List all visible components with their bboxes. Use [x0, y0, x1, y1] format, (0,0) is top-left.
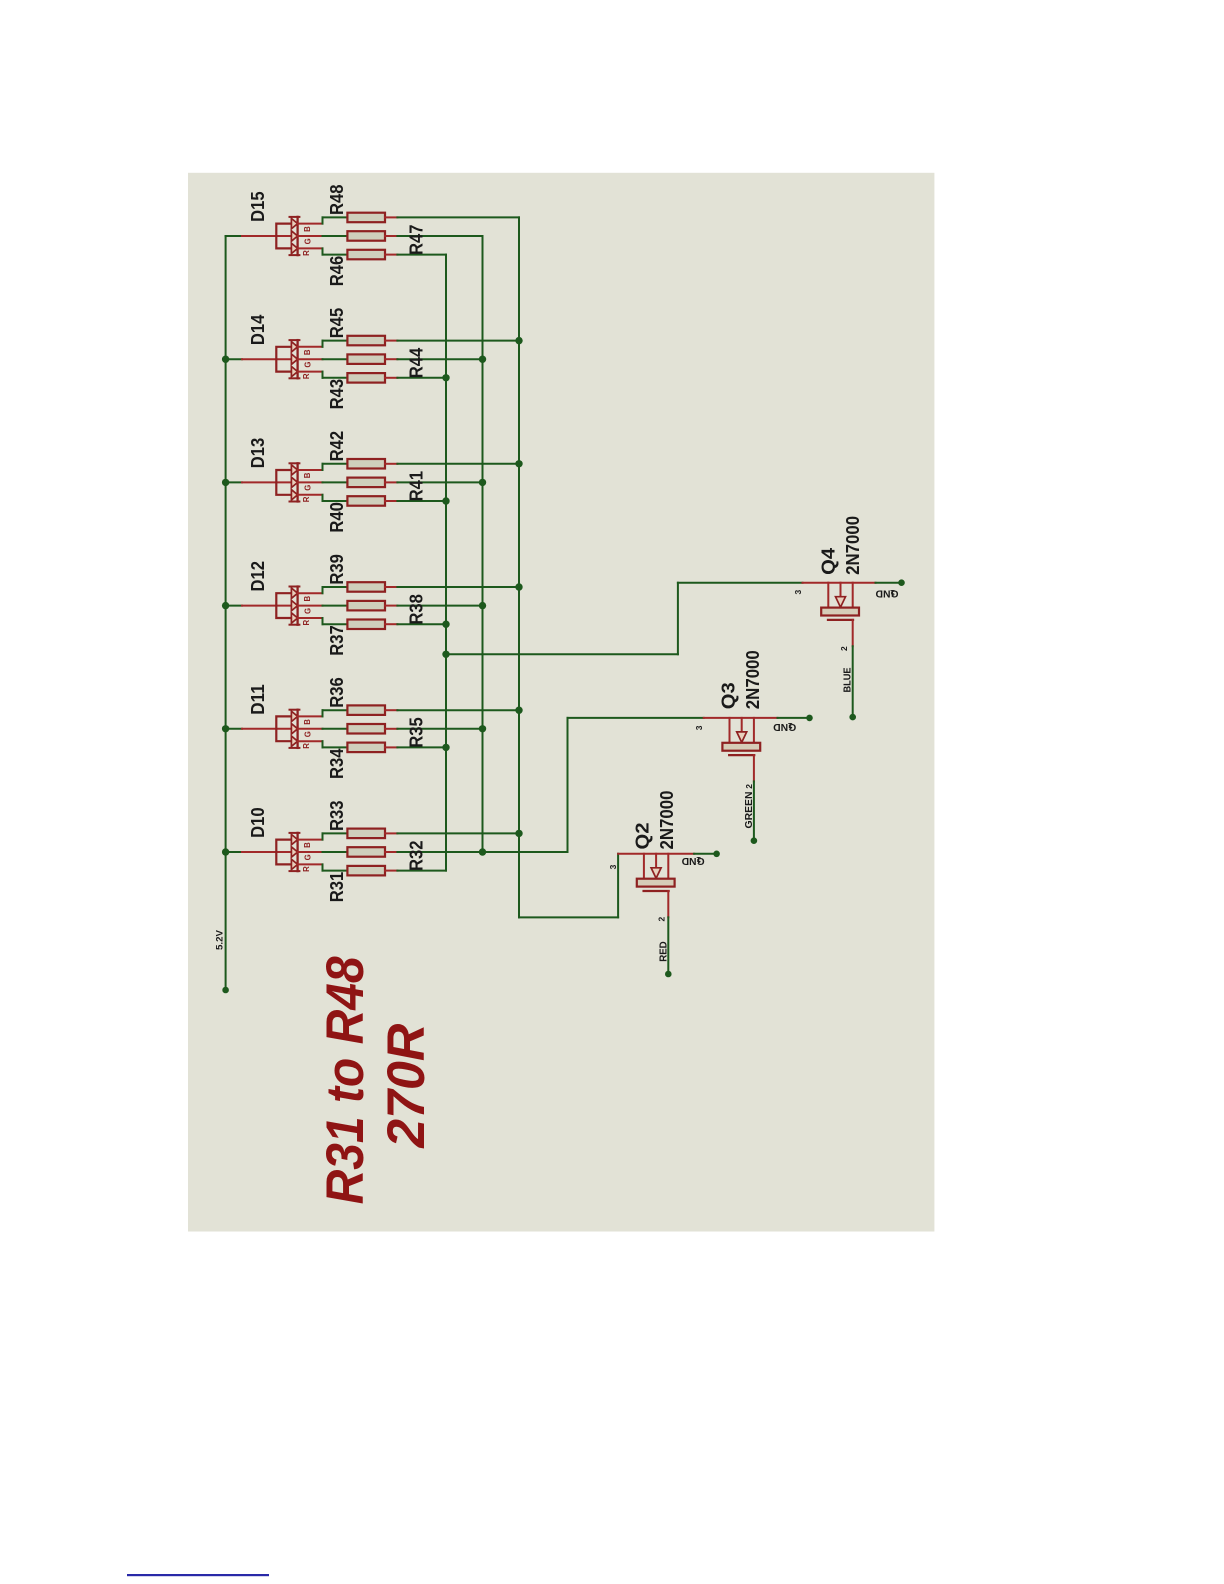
svg-text:R46: R46 [327, 256, 347, 287]
svg-text:RED: RED [657, 941, 669, 962]
svg-text:2: 2 [657, 917, 667, 922]
svg-text:BLUE: BLUE [842, 668, 854, 693]
svg-text:D11: D11 [248, 684, 268, 715]
svg-text:R31 to R48: R31 to R48 [316, 956, 375, 1204]
svg-text:G: G [303, 362, 312, 368]
svg-text:D13: D13 [248, 438, 268, 469]
svg-text:R41: R41 [406, 471, 426, 502]
svg-text:R45: R45 [327, 308, 347, 339]
svg-text:3: 3 [694, 725, 704, 730]
svg-text:R40: R40 [327, 502, 347, 533]
svg-text:R35: R35 [406, 717, 426, 748]
svg-text:R43: R43 [327, 379, 347, 410]
svg-text:R: R [302, 373, 311, 379]
svg-text:R37: R37 [327, 625, 347, 656]
svg-text:R33: R33 [327, 801, 347, 832]
svg-text:3: 3 [793, 590, 803, 595]
svg-text:B: B [303, 226, 312, 232]
svg-text:R: R [302, 250, 311, 256]
svg-text:3: 3 [608, 864, 618, 869]
svg-text:D12: D12 [248, 561, 268, 592]
svg-text:270R: 270R [377, 1024, 436, 1149]
svg-text:R36: R36 [327, 677, 347, 708]
svg-text:G: G [303, 485, 312, 491]
svg-text:D15: D15 [248, 191, 268, 222]
svg-text:2: 2 [839, 646, 849, 651]
svg-text:B: B [303, 349, 312, 355]
svg-text:D14: D14 [248, 314, 268, 345]
svg-text:D10: D10 [248, 807, 268, 838]
svg-text:Q2: Q2 [632, 823, 652, 850]
svg-text:1: 1 [890, 588, 895, 598]
svg-text:R: R [302, 743, 311, 749]
svg-text:R32: R32 [406, 841, 426, 872]
svg-text:GREEN: GREEN [743, 792, 755, 829]
svg-text:G: G [303, 731, 312, 737]
svg-text:2N7000: 2N7000 [743, 650, 763, 709]
svg-text:R: R [302, 620, 311, 626]
svg-text:R38: R38 [406, 594, 426, 625]
svg-text:Q3: Q3 [719, 682, 739, 709]
svg-text:R42: R42 [327, 431, 347, 462]
svg-text:R48: R48 [327, 185, 347, 216]
svg-text:1: 1 [788, 721, 793, 731]
svg-text:5.2V: 5.2V [215, 930, 225, 950]
svg-text:R47: R47 [406, 225, 426, 256]
svg-text:G: G [303, 238, 312, 244]
svg-text:R: R [302, 866, 311, 872]
svg-text:G: G [303, 854, 312, 860]
svg-text:2: 2 [744, 784, 754, 789]
svg-text:2N7000: 2N7000 [843, 516, 863, 575]
svg-text:Q4: Q4 [819, 547, 839, 575]
svg-text:2N7000: 2N7000 [657, 791, 677, 850]
svg-text:B: B [303, 472, 312, 478]
svg-text:R: R [302, 496, 311, 502]
svg-text:R34: R34 [327, 748, 347, 779]
svg-text:R31: R31 [327, 872, 347, 903]
svg-text:R44: R44 [406, 347, 426, 378]
svg-text:B: B [303, 596, 312, 602]
svg-text:B: B [303, 719, 312, 725]
svg-text:G: G [303, 608, 312, 614]
svg-text:R39: R39 [327, 554, 347, 585]
svg-text:1: 1 [696, 855, 701, 865]
svg-text:B: B [303, 842, 312, 848]
